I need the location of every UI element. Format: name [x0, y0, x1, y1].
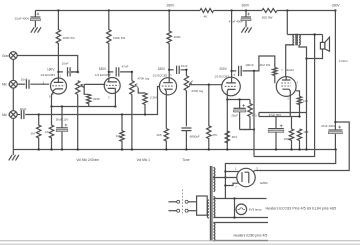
junction rail B+ right	[334, 9, 336, 11]
transformer mains 6V3 winding	[213, 197, 215, 218]
junction CT pin1	[224, 170, 226, 172]
wire Mic1 to cap	[17, 114, 20, 116]
junction Mic1 1M	[38, 113, 40, 115]
wiper arrowhead pot2	[135, 84, 138, 88]
wire switch to box 2	[188, 210, 197, 212]
wire Gram to pot1 top	[17, 56, 77, 72]
jack Gram input	[9, 52, 17, 60]
svg-text:1M: 1M	[116, 134, 121, 138]
svg-text:1K5: 1K5	[156, 133, 162, 137]
ground below 47uF	[241, 27, 251, 32]
svg-text:330V: 330V	[332, 4, 341, 8]
wiper arrow pot1	[81, 85, 84, 88]
svg-text:50uF 12V: 50uF 12V	[56, 118, 69, 122]
junction speaker return	[305, 57, 307, 59]
switch contact circle 2a	[177, 209, 180, 212]
resistor 160R	[289, 117, 293, 150]
wire cathode line V1 V2	[52, 106, 116, 108]
transformer mains HT winding	[213, 168, 215, 192]
svg-text:47uF 400V: 47uF 400V	[321, 124, 335, 128]
junction bus V3 cathode	[165, 148, 167, 150]
capacitor 47nF V2 out	[116, 67, 119, 76]
wire B+ rail mid section	[214, 10, 263, 12]
svg-text:Heaters ECC83 Pins 4/5 &9 EL84: Heaters ECC83 Pins 4/5 &9 EL84 pins 4&5	[266, 206, 337, 210]
wire cathode RC top bar	[227, 99, 250, 101]
wire V2 cathode	[114, 93, 116, 106]
wire mains switch stub L1	[169, 201, 177, 203]
wiper arrowhead pot1	[81, 84, 84, 87]
wire pot1 wiper to V2 grid	[84, 83, 105, 85]
junction rail OPT	[286, 9, 288, 11]
svg-text:260V: 260V	[167, 3, 176, 7]
wire RC bar to NFB vertical	[240, 129, 254, 131]
wire 25uF top lead	[239, 100, 241, 109]
svg-text:100K 5%: 100K 5%	[63, 36, 76, 40]
resistor 470 NFB	[248, 100, 252, 117]
junction rail T2	[108, 9, 110, 11]
junction NFB takeoff	[253, 70, 255, 72]
resistor 1K cathode bias	[49, 107, 53, 150]
svg-text:Vol Mic 1: Vol Mic 1	[137, 158, 151, 162]
junction bus speaker	[305, 148, 307, 150]
switch contact circle 1b	[185, 200, 188, 203]
wire switch to box 1	[188, 201, 197, 203]
wire V4 anode	[231, 11, 233, 78]
rectifier EZ80	[237, 168, 255, 186]
junction Mic1 grid leak	[121, 113, 123, 115]
junction rail T1	[57, 9, 59, 11]
wire 50uF bottom lead	[61, 132, 63, 150]
svg-text:Tone: Tone	[182, 158, 189, 162]
junction bus 1M Mic1	[38, 148, 40, 150]
wire 22uF to ground	[34, 21, 36, 28]
transformer OPT windings	[293, 34, 300, 46]
wire V1 cathode down	[52, 93, 53, 107]
svg-text:Mic 2: Mic 2	[2, 83, 10, 87]
svg-text:1/2 ECC83: 1/2 ECC83	[95, 73, 110, 77]
junction V4 anode	[230, 70, 232, 72]
junction lamp bottom	[233, 216, 235, 218]
junction lamp top	[233, 197, 235, 199]
svg-text:10nF: 10nF	[20, 107, 27, 111]
wire line 112	[259, 112, 307, 114]
wire EZ80 heater bottom	[213, 240, 268, 242]
wire 50uF top lead	[61, 107, 63, 128]
junction rail 47uF	[245, 9, 247, 11]
wire mains switch stub L2	[169, 210, 177, 212]
capacitor 10nF V3 out	[177, 66, 180, 74]
speaker 3 Ohm	[320, 37, 329, 51]
capacitor 6800pF tone	[181, 128, 191, 131]
wire jack bus 2	[12, 88, 14, 111]
wire 47nF to pot2	[120, 72, 132, 81]
jack Mic 1 input	[9, 111, 17, 119]
resistor 100K (V3 anode)	[167, 11, 171, 78]
junction cathode bar 1K8	[298, 115, 300, 117]
wire cap to V1 grid	[30, 83, 49, 85]
junction bus 1K8	[298, 148, 300, 150]
junction bus pot2	[131, 148, 133, 150]
junction RC cap top	[238, 98, 240, 100]
resistor 47K V4 grid leak	[207, 85, 211, 150]
wire lamp vertical	[234, 199, 236, 218]
svg-text:160R: 160R	[284, 137, 291, 141]
junction OPT secondary top	[313, 33, 315, 35]
svg-text:Heaters EZ80 pins 4/5: Heaters EZ80 pins 4/5	[234, 234, 268, 238]
wire EL84 anode	[286, 45, 295, 77]
svg-text:3 Ohm: 3 Ohm	[339, 59, 349, 63]
svg-text:2K2 1W: 2K2 1W	[260, 63, 271, 67]
svg-text:100: 100	[303, 99, 308, 103]
svg-text:500 5W: 500 5W	[262, 16, 273, 20]
capacitor 10nF V1 out	[68, 67, 71, 76]
junction rail T3	[168, 9, 170, 11]
junction RC bottom	[253, 128, 255, 130]
svg-text:EL84: EL84	[287, 68, 295, 72]
potentiometer 470K log (tone/vol)	[184, 76, 188, 91]
svg-text:200V: 200V	[219, 67, 227, 71]
capacitor 10nF Mic2	[26, 80, 29, 89]
switch link dashed	[181, 190, 183, 215]
capacitor 47uF 50V EL84 cathode	[268, 124, 284, 132]
wire EZ80 heater top	[213, 222, 268, 224]
svg-text:47uF 400V: 47uF 400V	[229, 20, 243, 24]
junction bus 1M V2	[121, 148, 123, 150]
resistor 2K2 1W EL84 grid	[273, 68, 277, 76]
wire reservoir to bus	[334, 134, 336, 150]
wire 6V3 heater bottom	[213, 217, 268, 219]
capacitor 47uF 400V reservoir	[328, 126, 342, 134]
lamp 6V3	[236, 204, 247, 215]
wire V2 anode branch	[109, 71, 114, 73]
triode V3 1/2 ECC83	[159, 78, 176, 96]
wire 47uF cap lead	[245, 11, 247, 18]
wire speaker top lead	[322, 35, 324, 43]
resistor 100 screen	[297, 97, 301, 117]
wire bus to CT line	[225, 150, 335, 199]
wire ground bus	[13, 149, 335, 151]
capacitor 47uF 400V (rail)	[241, 13, 251, 21]
wire Mic1 line to V3 grid	[25, 87, 159, 115]
resistor 1M V2 grid leak	[120, 115, 124, 150]
wire B+ right vertical	[334, 11, 336, 131]
transformer mains primary winding	[207, 200, 209, 218]
wiper pot2 to 2.2M	[138, 88, 145, 93]
svg-text:2.2M: 2.2M	[150, 95, 157, 99]
junction cathode line left	[50, 105, 52, 107]
svg-text:1K: 1K	[45, 130, 49, 134]
wire V3 cathode down	[165, 95, 167, 128]
wire OPT top line	[287, 34, 322, 36]
wire Mic2 to cap	[17, 83, 25, 85]
svg-text:Gram: Gram	[2, 54, 10, 58]
svg-text:10nF: 10nF	[21, 78, 28, 82]
junction rail T4	[230, 9, 232, 11]
svg-text:100K 5%: 100K 5%	[113, 36, 126, 40]
junction bus end	[335, 148, 337, 150]
wire EL84 g2	[296, 91, 300, 97]
resistor 100K 5% (V1 anode)	[56, 11, 60, 78]
capacitor 25uF V4 cathode	[233, 104, 245, 112]
wire HT tap to EZ80	[213, 177, 237, 179]
junction bus 160R	[290, 148, 292, 150]
junction CT pin7	[224, 184, 226, 186]
wire 25uF bottom lead	[239, 112, 241, 129]
svg-text:47K: 47K	[212, 133, 217, 137]
resistor 1K5 V3 cathode	[164, 129, 168, 150]
capacitor 22uF 400V	[30, 13, 40, 21]
wire 47uF to ground	[245, 21, 247, 28]
junction bus pot1	[77, 148, 79, 150]
svg-text:22uF 400V: 22uF 400V	[15, 16, 30, 20]
wire B+ rail left section	[35, 10, 200, 12]
wire NFB vertical	[253, 71, 255, 157]
window border line	[0, 240, 360, 242]
wire V4 anode to cap	[232, 70, 237, 72]
svg-text:6V3 lamp: 6V3 lamp	[249, 208, 262, 212]
triode V4 1/2 ECC83	[222, 77, 241, 96]
svg-text:EZ80: EZ80	[260, 181, 268, 185]
svg-text:470K log: 470K log	[191, 89, 203, 93]
junction bus 3K3	[226, 148, 228, 150]
svg-text:470K log: 470K log	[137, 77, 149, 81]
svg-text:180V: 180V	[158, 67, 166, 71]
resistor 100K 5% (V2 anode)	[107, 11, 111, 78]
junction cathode line cap	[61, 105, 63, 107]
wiper arrowhead pot3	[189, 81, 192, 87]
svg-text:100K: 100K	[174, 35, 181, 39]
resistor 1M Mic1 grid leak	[37, 115, 41, 150]
resistor 4K (rail dropper)	[200, 9, 214, 13]
mains connector box	[197, 196, 208, 215]
wire stub 112	[258, 113, 260, 117]
ground below 22uF	[31, 27, 41, 32]
transformer mains EZ80 heater winding	[213, 223, 215, 241]
junction Mic1 2.2M	[144, 113, 146, 115]
wire 6V3 heater top	[213, 198, 266, 200]
wire EZ80 pin7 lead	[225, 183, 238, 185]
svg-text:1/2 ECC83: 1/2 ECC83	[214, 74, 229, 78]
wire jack bus 3	[12, 118, 14, 155]
svg-text:47uF 50V: 47uF 50V	[269, 113, 282, 117]
svg-text:1/2 ECC83: 1/2 ECC83	[152, 73, 167, 77]
junction B+ rectifier branch	[334, 121, 336, 123]
junction 47K grid leak	[208, 84, 210, 86]
wire 22uF cap lead	[34, 11, 36, 18]
potentiometer 470K log (Mic1 vol)	[130, 81, 134, 95]
wire pot2 bottom to bus	[131, 95, 133, 150]
wire 470 to RC bottom bar	[240, 117, 250, 130]
svg-text:Mic 1: Mic 1	[2, 113, 10, 117]
svg-text:10nF: 10nF	[62, 61, 69, 65]
wire V3 anode branch	[169, 69, 173, 71]
svg-text:47nF: 47nF	[122, 64, 129, 68]
junction bus 47uF50V	[275, 148, 277, 150]
switch contact circle 2b	[185, 209, 188, 212]
wire V4 cathode down	[226, 96, 228, 149]
junction CT HT tap	[224, 176, 226, 178]
wire OPT secondary bottom	[299, 45, 307, 150]
wire tone cap to bus	[185, 131, 187, 150]
wire EZ80 pin1 lead	[225, 171, 239, 173]
wire grid resistor to EL84	[274, 76, 276, 84]
switch contact circle 1a	[177, 200, 180, 203]
svg-text:Vol Mic 2/Gram: Vol Mic 2/Gram	[76, 158, 99, 162]
resistor 1K8	[297, 129, 301, 150]
resistor 2.2M mix	[143, 93, 147, 115]
resistor 500 5W (rail dropper)	[262, 9, 277, 13]
ground input jacks	[9, 155, 19, 160]
wire cap to pot1	[71, 71, 77, 73]
junction bus 1K bias	[50, 148, 52, 150]
junction bus tone	[185, 148, 187, 150]
svg-text:10nF: 10nF	[181, 64, 188, 68]
capacitor 50uF 12V cathode bypass	[56, 124, 68, 132]
wire OPT primary top feed	[286, 11, 288, 35]
wire B+ rail right section	[277, 10, 335, 12]
junction V1 anode	[57, 71, 59, 73]
svg-text:220K: 220K	[93, 97, 100, 101]
wire speaker bottom lead	[307, 49, 323, 59]
wire pot3 bottom to tone cap	[185, 91, 187, 127]
junction pot2 top	[131, 71, 133, 73]
junction cathode line right	[114, 105, 116, 107]
potentiometer 470K log (Mic2/Gram vol)	[76, 81, 80, 95]
junction pot1 top	[77, 71, 79, 73]
wire 47uF50V top lead	[275, 117, 277, 129]
window bottom band	[0, 243, 360, 245]
resistor 3K3 V4 cathode	[225, 131, 229, 143]
jack Mic 2 input	[9, 80, 17, 88]
pentode EL84	[276, 77, 296, 97]
svg-text:300V: 300V	[242, 4, 251, 8]
svg-text:180V: 180V	[99, 67, 107, 71]
wire pot1 wiper to 220K	[84, 84, 89, 94]
junction V3 anode	[168, 69, 170, 71]
svg-text:3K3: 3K3	[232, 135, 238, 139]
junction V2 anode	[108, 71, 110, 73]
transformer mains (core)	[210, 166, 212, 240]
triode V1 1/2 ECC83	[51, 78, 67, 95]
svg-text:25uF: 25uF	[231, 113, 238, 117]
wire EL84 cathode bar	[259, 116, 300, 118]
wire 100nF to EL84 grid resistor	[243, 56, 275, 71]
wire 47uF50V bottom lead	[275, 132, 277, 149]
wire OPT primary bottom	[286, 44, 295, 46]
svg-text:6800pF: 6800pF	[190, 135, 200, 139]
svg-text:100nF: 100nF	[245, 63, 254, 67]
capacitor 100nF coupling	[239, 66, 242, 76]
wire EL84 cathode	[289, 95, 291, 117]
capacitor 10nF Mic1	[21, 110, 24, 119]
wire B+ to rectifier loop	[255, 122, 349, 171]
svg-text:1M: 1M	[31, 132, 36, 136]
junction bus 50uF	[61, 148, 63, 150]
svg-text:180V: 180V	[47, 67, 55, 71]
svg-text:470K log: 470K log	[68, 70, 80, 74]
wire pot1 bottom to bus	[77, 95, 79, 150]
junction V4 cathode	[226, 98, 228, 100]
wire jack bus 1	[12, 59, 14, 80]
svg-text:1/2 ECC83: 1/2 ECC83	[40, 73, 55, 77]
triode V2 1/2 ECC83	[104, 78, 120, 95]
wire pot3 wiper to V4 grid	[189, 84, 222, 86]
wire NFB run to OPT secondary	[254, 35, 315, 157]
wire 10nF to pot3	[181, 70, 187, 76]
junction bus 47K	[208, 148, 210, 150]
wire V1 anode branch	[58, 71, 63, 73]
wire EZ80 pin3 lead	[253, 170, 255, 173]
resistor 220K (mix)	[87, 94, 91, 106]
junction pot3 top	[185, 69, 187, 71]
